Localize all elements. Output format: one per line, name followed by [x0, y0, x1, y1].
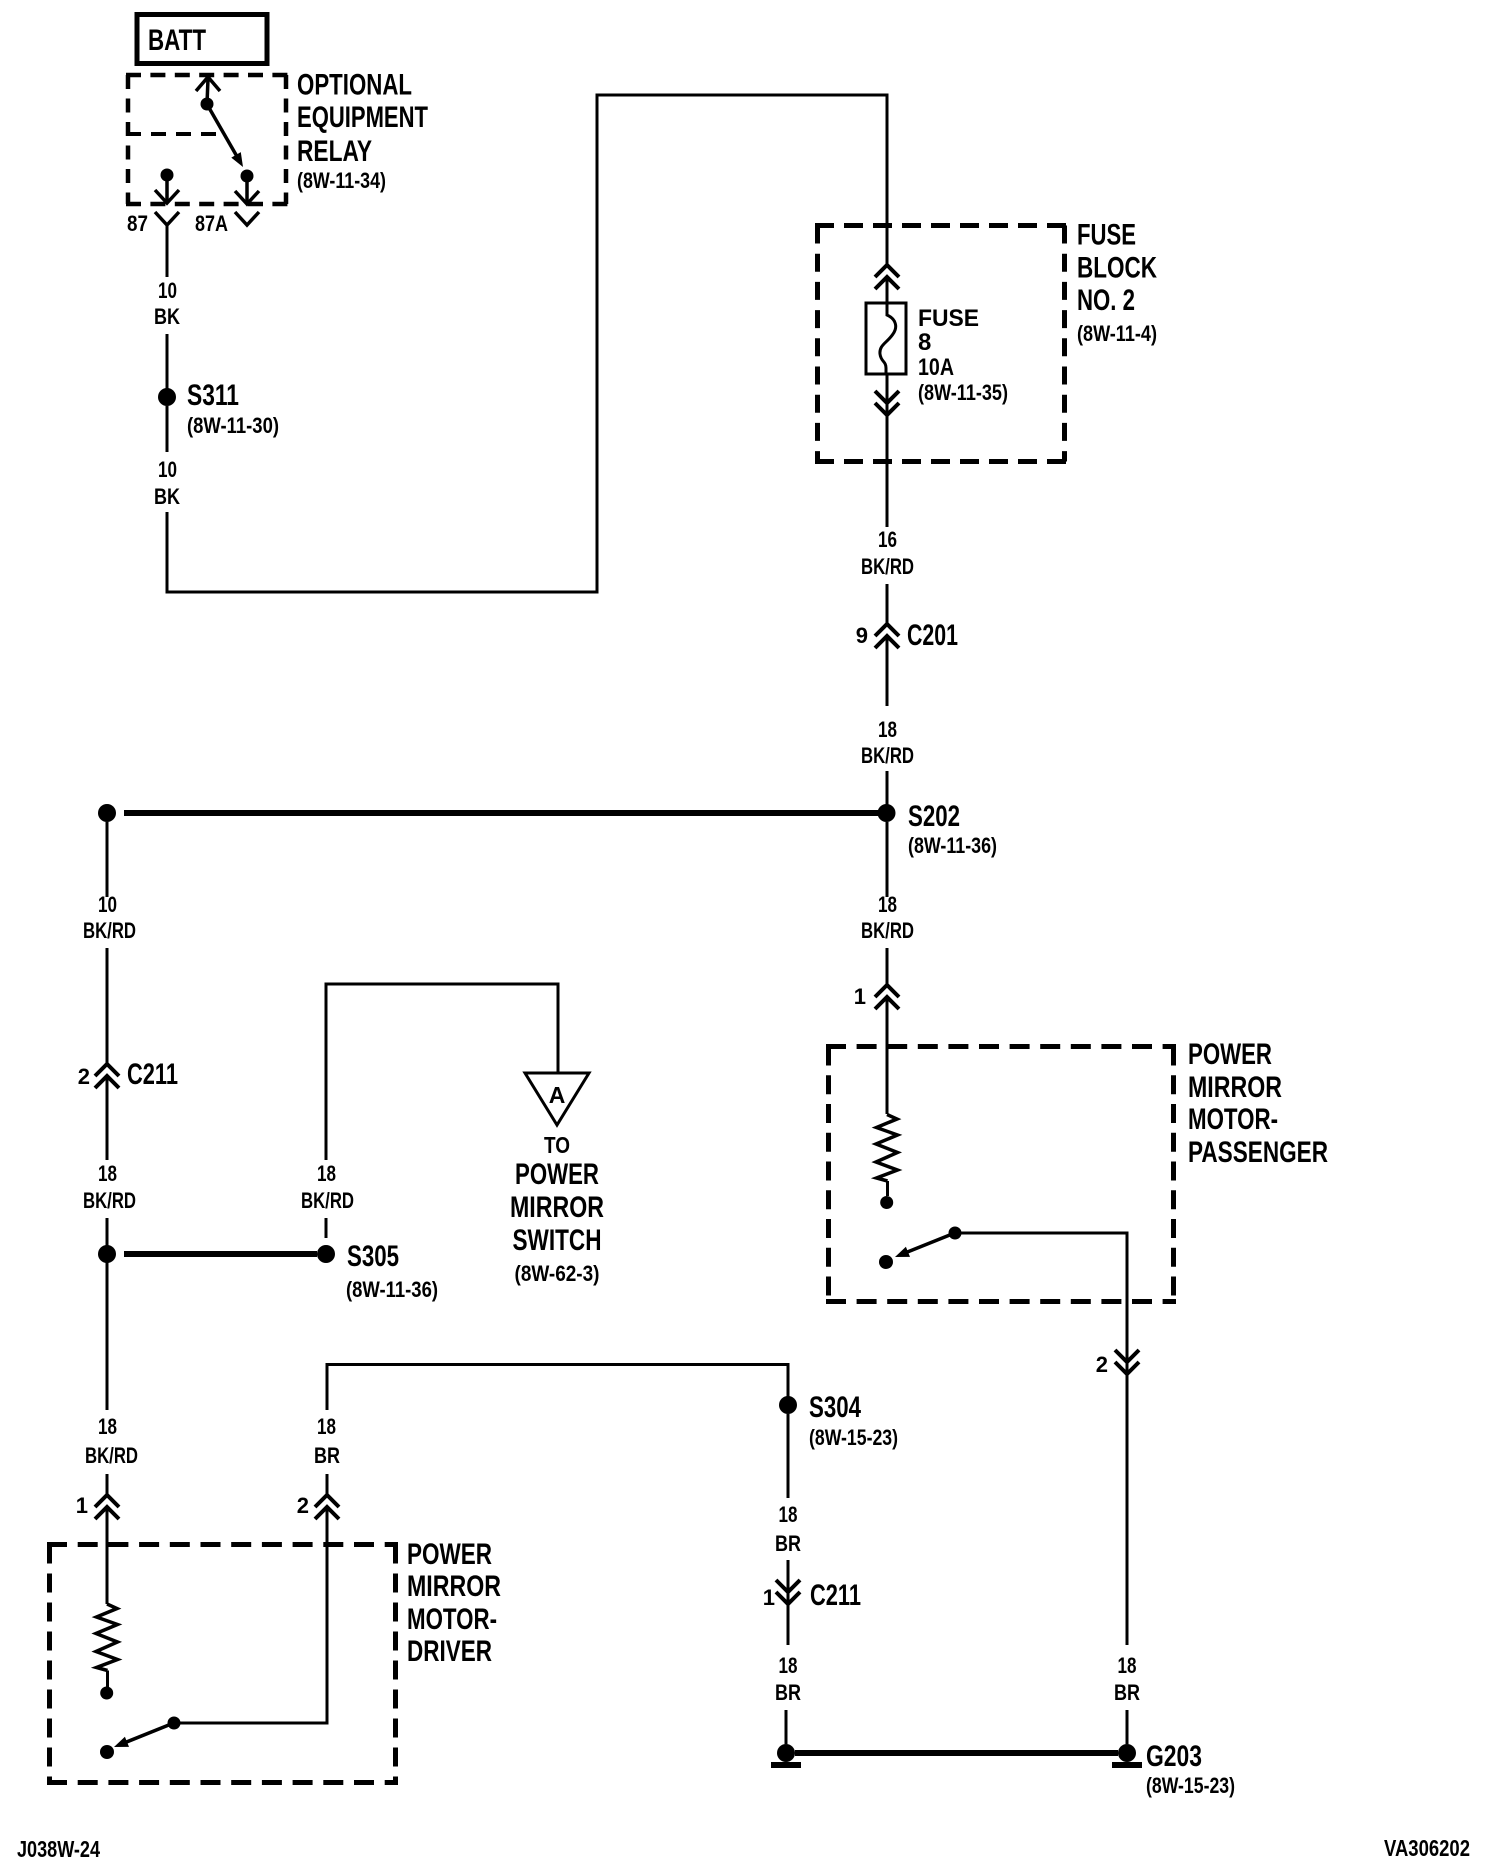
passenger motor pin 2 connector chevron [1115, 1350, 1139, 1374]
svg-text:2: 2 [297, 1493, 309, 1518]
passenger switch arm arrow [895, 1235, 951, 1258]
splice S311 dot [158, 388, 176, 406]
wire chevron to fuse [886, 278, 889, 303]
wire fuse to output chevron [886, 374, 889, 414]
S305 junction left dot [98, 1245, 116, 1263]
svg-text:BR: BR [775, 1680, 801, 1705]
svg-text:(8W-11-35): (8W-11-35) [918, 380, 1008, 405]
relay pin 87 arrow [155, 180, 179, 203]
svg-text:(8W-11-30): (8W-11-30) [187, 413, 279, 438]
svg-text:DRIVER: DRIVER [407, 1635, 492, 1668]
off-page triangle A [525, 1073, 589, 1125]
power mirror motor driver dashed box [47, 1545, 398, 1783]
svg-text:18: 18 [98, 1414, 117, 1439]
svg-text:(8W-62-3): (8W-62-3) [515, 1261, 600, 1286]
power mirror motor passenger dashed box [826, 1047, 1176, 1302]
svg-text:10: 10 [98, 892, 117, 917]
fuse block output connector chevron [875, 391, 899, 415]
svg-text:TO: TO [544, 1132, 570, 1158]
wire switch to box exit [961, 1233, 1127, 1373]
svg-text:S305: S305 [347, 1240, 399, 1273]
driver switch throw dot [100, 1745, 114, 1759]
relay contact 87A dot [241, 170, 254, 183]
svg-text:VA306202: VA306202 [1384, 1835, 1470, 1861]
fuse F8 body [866, 303, 906, 374]
wire below left node dot [106, 822, 109, 897]
wire to C201 [886, 584, 889, 624]
svg-text:BATT: BATT [148, 24, 206, 57]
svg-text:EQUIPMENT: EQUIPMENT [297, 101, 428, 134]
svg-text:87: 87 [127, 211, 148, 236]
ground G203 dot [1118, 1744, 1136, 1762]
svg-text:BR: BR [1114, 1680, 1140, 1705]
svg-text:PASSENGER: PASSENGER [1188, 1136, 1328, 1169]
svg-text:C211: C211 [127, 1058, 178, 1091]
svg-text:POWER: POWER [1188, 1038, 1272, 1071]
splice S305 dot [317, 1245, 335, 1263]
svg-text:87A: 87A [195, 211, 228, 236]
relay common arrow to BATT [196, 77, 220, 104]
svg-text:FUSE: FUSE [918, 305, 979, 332]
svg-text:18: 18 [317, 1161, 336, 1186]
passenger switch throw dot [879, 1255, 893, 1269]
node dot left of bus [98, 804, 116, 822]
wire to driver connector [106, 1474, 109, 1495]
relay internal divider [126, 132, 223, 136]
svg-text:RELAY: RELAY [297, 135, 372, 168]
wire below C211 [787, 1604, 790, 1645]
relay common pin dot [201, 98, 214, 111]
wire below S304 [787, 1414, 790, 1498]
wire to left ground [785, 1710, 788, 1744]
svg-text:1: 1 [763, 1585, 775, 1610]
wire S305 up stub [325, 1218, 328, 1238]
svg-text:BK: BK [154, 304, 180, 329]
wire below C211 [106, 1077, 109, 1160]
connector C201 chevron [875, 624, 899, 648]
wire to C211 [106, 948, 109, 1064]
svg-text:1: 1 [76, 1493, 88, 1518]
relay switch arm [208, 106, 243, 167]
svg-text:10: 10 [158, 457, 177, 482]
ground bus wire [795, 1750, 1118, 1756]
svg-text:MIRROR: MIRROR [407, 1570, 501, 1603]
wire into driver box to resistor [106, 1508, 109, 1604]
svg-text:G203: G203 [1146, 1740, 1202, 1773]
svg-text:S311: S311 [187, 379, 239, 412]
svg-text:NO. 2: NO. 2 [1077, 284, 1135, 317]
svg-text:BR: BR [775, 1531, 801, 1556]
fuse block no.2 dashed box [815, 226, 1067, 462]
wire 87 to label gap [166, 225, 169, 277]
wire below S202 [886, 822, 889, 897]
svg-text:A: A [549, 1082, 566, 1108]
svg-text:BK/RD: BK/RD [83, 1188, 136, 1213]
wire to C211 [787, 1560, 790, 1603]
svg-text:BK/RD: BK/RD [861, 918, 914, 943]
driver motor resistor [96, 1604, 118, 1671]
svg-text:BK/RD: BK/RD [301, 1188, 354, 1213]
wire switch to pin 2 [180, 1508, 327, 1723]
relay contact 87 dot [161, 169, 174, 182]
left ground symbol bar [771, 1762, 801, 1768]
svg-text:MIRROR: MIRROR [510, 1191, 604, 1224]
junction bus wire [124, 810, 878, 816]
svg-text:J038W-24: J038W-24 [17, 1836, 100, 1862]
svg-text:(8W-11-36): (8W-11-36) [908, 833, 997, 858]
svg-text:16: 16 [878, 527, 897, 552]
svg-text:18: 18 [1118, 1653, 1137, 1678]
svg-text:(8W-15-23): (8W-15-23) [809, 1425, 898, 1450]
svg-text:MOTOR-: MOTOR- [1188, 1103, 1278, 1136]
svg-text:FUSE: FUSE [1077, 219, 1136, 252]
optional equipment relay box [126, 75, 288, 204]
splice S202 dot [878, 804, 896, 822]
driver switch arm arrow [114, 1725, 170, 1748]
svg-text:POWER: POWER [407, 1538, 492, 1571]
svg-text:(8W-11-4): (8W-11-4) [1077, 321, 1157, 346]
wire run to switch triangle [326, 984, 558, 1160]
wire to S311 [166, 334, 169, 390]
passenger switch common dot [949, 1227, 962, 1240]
svg-text:BK/RD: BK/RD [861, 554, 914, 579]
S305 bus wire [124, 1251, 317, 1257]
svg-text:(8W-15-23): (8W-15-23) [1146, 1773, 1235, 1798]
driver motor pin 2 connector chevron [315, 1495, 339, 1519]
wire down to 18 BR label [1126, 1374, 1129, 1645]
driver motor pole dot [100, 1687, 113, 1700]
wire into passenger motor box [886, 998, 889, 1114]
svg-text:BK/RD: BK/RD [83, 918, 136, 943]
driver motor pin 1 connector chevron [95, 1495, 119, 1519]
wire to 16 BK/RD label [886, 415, 889, 527]
wire up to S304 run [327, 1365, 788, 1411]
svg-text:BR: BR [314, 1443, 340, 1468]
passenger motor pole dot [880, 1196, 893, 1209]
resistor lead stub [886, 1181, 889, 1196]
connector half 87A [235, 212, 259, 225]
relay pin 87A arrow [235, 181, 259, 204]
svg-text:S304: S304 [809, 1391, 861, 1424]
svg-text:S202: S202 [908, 800, 960, 833]
svg-text:BK/RD: BK/RD [85, 1443, 138, 1468]
svg-text:(8W-11-34): (8W-11-34) [297, 168, 386, 193]
driver switch common dot [168, 1717, 181, 1730]
connector C211 chevron [776, 1580, 800, 1604]
svg-text:18: 18 [317, 1414, 336, 1439]
connector half 87 [155, 212, 179, 225]
svg-text:2: 2 [1096, 1352, 1108, 1377]
svg-text:1: 1 [854, 984, 866, 1009]
svg-text:C211: C211 [810, 1579, 861, 1612]
wire to S305 junction [106, 1218, 109, 1246]
svg-text:18: 18 [779, 1502, 798, 1527]
connector C211 chevron [95, 1064, 119, 1088]
resistor lead stub [106, 1671, 109, 1688]
wire run to fuse block [167, 95, 887, 592]
svg-text:MIRROR: MIRROR [1188, 1071, 1282, 1104]
svg-text:18: 18 [779, 1653, 798, 1678]
fuse block input connector chevron [875, 265, 899, 289]
svg-text:18: 18 [878, 892, 897, 917]
svg-text:(8W-11-36): (8W-11-36) [346, 1277, 438, 1302]
svg-text:8: 8 [918, 329, 931, 356]
passenger motor connector chevron [875, 985, 899, 1009]
svg-text:10: 10 [158, 278, 177, 303]
wire C201 to label [886, 637, 889, 706]
wire below S311 [166, 406, 169, 452]
svg-text:9: 9 [856, 623, 868, 648]
svg-text:SWITCH: SWITCH [513, 1224, 602, 1257]
svg-text:BLOCK: BLOCK [1077, 252, 1157, 285]
svg-text:18: 18 [98, 1161, 117, 1186]
wire stub above pin2 chevron [326, 1474, 329, 1495]
wire to G203 [1126, 1710, 1129, 1744]
svg-text:10A: 10A [918, 354, 954, 381]
svg-text:OPTIONAL: OPTIONAL [297, 69, 412, 102]
passenger motor resistor [876, 1115, 898, 1182]
svg-text:BK: BK [154, 484, 180, 509]
G203 ground symbol bar [1112, 1762, 1142, 1768]
svg-text:POWER: POWER [515, 1158, 599, 1191]
svg-text:18: 18 [878, 717, 897, 742]
battery feed box BATT [137, 15, 267, 64]
wire to S202 [886, 771, 889, 805]
splice S304 dot [779, 1396, 797, 1414]
svg-text:C201: C201 [907, 619, 958, 652]
wire to passenger motor connector [886, 948, 889, 985]
svg-text:2: 2 [78, 1064, 90, 1089]
svg-text:BK/RD: BK/RD [861, 743, 914, 768]
fuse F8 element curve [880, 303, 896, 374]
left ground dot [777, 1744, 795, 1762]
wire below S305 junction [106, 1262, 109, 1410]
svg-text:MOTOR-: MOTOR- [407, 1603, 497, 1636]
